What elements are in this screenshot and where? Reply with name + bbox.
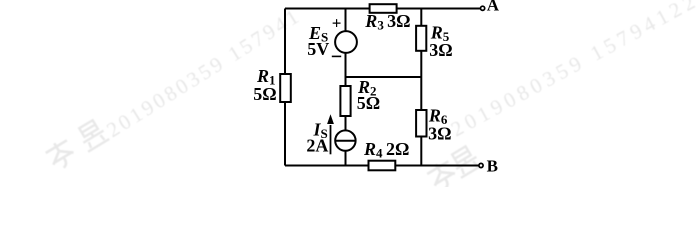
svg-text:R4 2Ω: R4 2Ω (363, 139, 409, 161)
svg-text:B: B (487, 156, 498, 175)
svg-text:+: + (332, 14, 342, 33)
svg-text:3Ω: 3Ω (428, 124, 451, 144)
svg-text:5Ω: 5Ω (357, 93, 380, 113)
svg-text:2019080359 15794122: 2019080359 15794122 (447, 0, 700, 141)
svg-text:5V: 5V (307, 39, 329, 59)
svg-text:A: A (487, 0, 500, 15)
svg-text:2A: 2A (306, 136, 328, 156)
svg-text:R3 3Ω: R3 3Ω (364, 11, 410, 33)
svg-text:3Ω: 3Ω (429, 40, 452, 60)
svg-text:5Ω: 5Ω (253, 84, 276, 104)
